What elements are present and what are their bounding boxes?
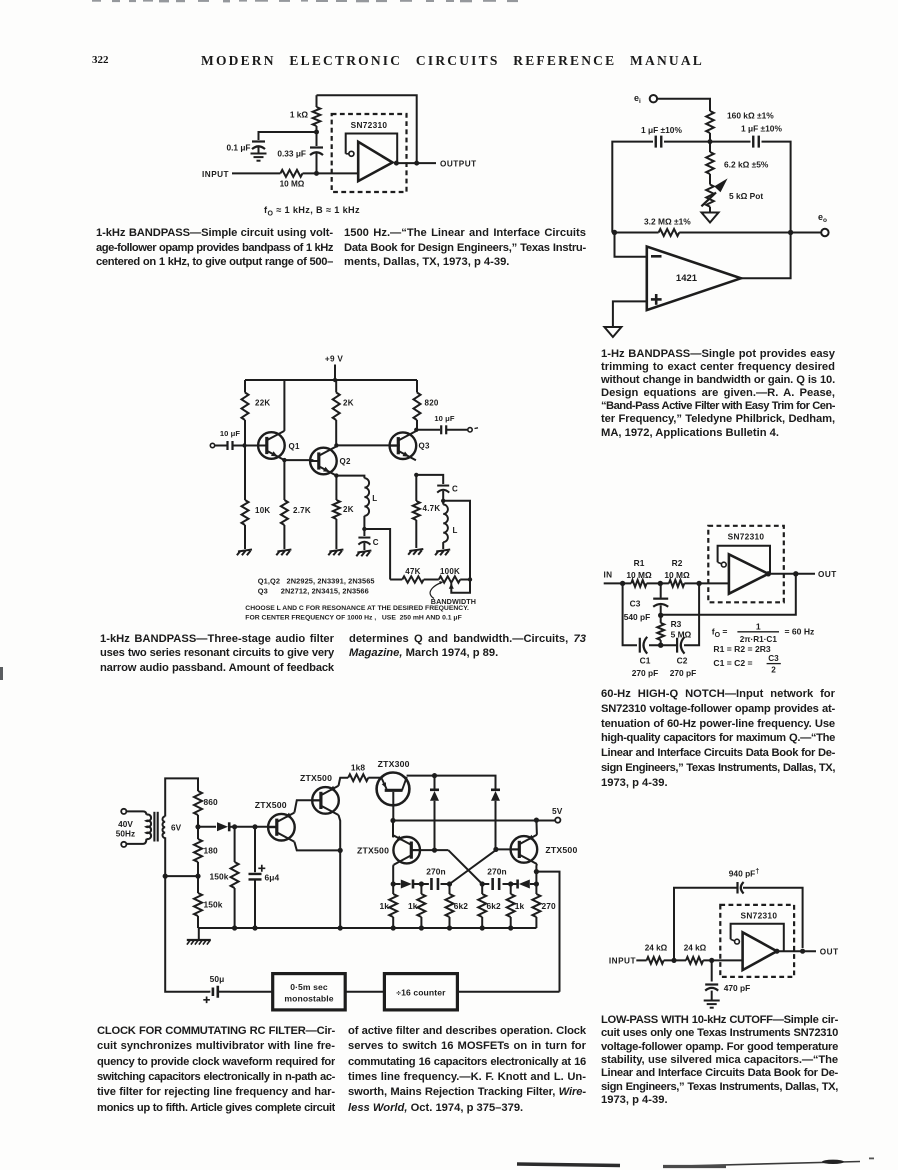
- svg-text:L: L: [372, 494, 377, 503]
- svg-text:OUT: OUT: [820, 947, 839, 956]
- ground (3-bar) below 0.1uF: [251, 153, 267, 155]
- wire: cross-coupling diagonal (right base to left cap): [450, 850, 496, 884]
- node: Q3 collector / output junction: [414, 428, 418, 432]
- resistor 22K: [242, 380, 271, 446]
- svg-text:2π·R1·C1: 2π·R1·C1: [740, 635, 778, 644]
- svg-text:270 pF: 270 pF: [632, 668, 659, 678]
- node: Q1 emitter junction: [282, 458, 286, 462]
- wire input line: [604, 582, 632, 584]
- node: 860/180/diode junction: [195, 824, 200, 829]
- svg-text:0.1 μF: 0.1 μF: [227, 143, 251, 153]
- node: 270 top junction: [534, 881, 539, 886]
- wire: voltage-follower feedback loop: [346, 134, 398, 164]
- node: L-C junction (Q2): [362, 527, 366, 531]
- wire to inverting input: [615, 233, 647, 257]
- svg-text:5V: 5V: [552, 806, 563, 816]
- node: output / feedback junction: [800, 949, 805, 954]
- wire pot to ground: [709, 207, 711, 213]
- wire Q1 collector to rail: [283, 380, 285, 431]
- svg-text:270n: 270n: [487, 867, 507, 877]
- capacitor 270n left: [421, 867, 449, 891]
- resistor 4.7K: [413, 475, 441, 548]
- svg-text:22K: 22K: [255, 399, 270, 408]
- resistor 820 (Q3 collector load): [414, 380, 439, 430]
- caption: 1-kHz bandpass (col 2): [344, 227, 586, 271]
- node: C1/C2/R3 junction: [658, 643, 663, 648]
- node: junction of 1k, 0.33uF, 0.1uF wire: [314, 130, 319, 135]
- svg-text:50Hz: 50Hz: [116, 830, 136, 839]
- resistor 1k (right): [507, 884, 525, 928]
- ground (3-bar) below 470 pF: [704, 1000, 720, 1002]
- svg-text:ZTX300: ZTX300: [378, 759, 410, 769]
- node: Q8 collector / counter junction: [534, 869, 539, 874]
- transformer T1 primary winding: [126, 811, 146, 814]
- svg-text:÷16 counter: ÷16 counter: [396, 987, 446, 997]
- potentiometer 5 kOhm: [701, 178, 763, 206]
- svg-text:270 pF: 270 pF: [670, 668, 697, 678]
- svg-text:10 MΩ: 10 MΩ: [664, 570, 690, 580]
- svg-text:1 μF ±10%: 1 μF ±10%: [741, 124, 782, 134]
- wire non-inverting input to ground: [613, 301, 647, 327]
- capacitor C1 270 pF: [632, 637, 659, 678]
- wire Q2 emitter right: [336, 476, 364, 479]
- resistor R1 10 MOhm: [626, 558, 652, 587]
- wire ZTX300 emitter vertical to mv emitter: [392, 821, 394, 838]
- node: 6u4 top junction: [252, 824, 257, 829]
- resistor 1k8: [348, 763, 368, 782]
- node: diode cathode / 150k junction: [232, 824, 237, 829]
- caption: low-pass with 10-kHz cutoff: [601, 1014, 838, 1108]
- diode D4 (bottom left, pointing right): [393, 883, 400, 885]
- resistor R3 5 MOhm: [657, 615, 691, 645]
- svg-text:CHOOSE L AND C FOR RESONANCE A: CHOOSE L AND C FOR RESONANCE AT THE DESI…: [245, 605, 469, 612]
- capacitor C2 270 pF: [670, 637, 697, 678]
- node: R2 / opamp input / C2 junction: [696, 581, 701, 586]
- svg-text:eo: eo: [818, 212, 827, 224]
- svg-text:2K: 2K: [343, 505, 354, 514]
- scan artifact: top edge dashes: [0, 0, 898, 8]
- transistor Q2: [310, 446, 351, 475]
- resistor 24 kOhm (first): [645, 944, 668, 964]
- node: IN / C1 junction: [620, 581, 625, 586]
- svg-text:ei: ei: [634, 93, 641, 105]
- wire: feedback top loop: [674, 888, 737, 961]
- svg-text:2.7K: 2.7K: [293, 506, 311, 515]
- resistor 150k filter: [209, 827, 238, 928]
- svg-text:150k: 150k: [209, 872, 228, 882]
- resistor 10 MOhm: [280, 170, 305, 189]
- diode D2 (left column): [434, 776, 436, 790]
- wire: junction to 180/150k node: [165, 875, 198, 877]
- diode D5 (bottom right, pointing left): [511, 883, 517, 885]
- svg-text:OUT: OUT: [818, 570, 837, 579]
- resistor 2K (Q2 collector load): [333, 380, 354, 445]
- svg-text:6μ4: 6μ4: [265, 873, 280, 883]
- minus sign: [651, 255, 662, 258]
- svg-text:ZTX500: ZTX500: [357, 845, 389, 855]
- svg-text:R2: R2: [672, 558, 683, 568]
- capacitor C (Q2 resonant): [358, 529, 378, 550]
- svg-text:fO =: fO =: [712, 627, 728, 640]
- op-amp triangle: [743, 932, 777, 970]
- wire 1k8 to ZTX300: [368, 777, 381, 779]
- svg-text:1k8: 1k8: [351, 763, 366, 773]
- node: 6k2 left top junction: [447, 881, 452, 886]
- svg-text:INPUT: INPUT: [609, 957, 636, 966]
- svg-text:180: 180: [204, 846, 219, 856]
- 5V output terminal: [555, 818, 560, 823]
- svg-text:C: C: [373, 538, 379, 547]
- transistor Q5 ZTX500 (second): [300, 773, 339, 815]
- node: output/feedback junction: [793, 571, 798, 576]
- resistor 6k2 (right): [478, 884, 501, 928]
- svg-text:C1 = C2 =: C1 = C2 =: [713, 658, 752, 668]
- inductor L (Q2 resonant): [364, 478, 377, 529]
- svg-text:40V: 40V: [118, 820, 133, 829]
- wire collector junction to counter riser: [536, 872, 559, 992]
- ground (triangle) below pot: [702, 213, 719, 223]
- op-amp U3 SN72310 dashed package box: [708, 526, 784, 603]
- node: op-amp output: [766, 571, 771, 576]
- transistor Q3: [389, 431, 430, 460]
- node: 100K / wiper / feedback junction: [468, 577, 472, 581]
- svg-text:1k: 1k: [515, 901, 525, 911]
- block: divide-by-16 counter: [384, 974, 457, 1010]
- wire collectors to bottom rail: [339, 815, 341, 928]
- svg-text:Q1: Q1: [289, 442, 300, 451]
- caption: clock for commutating RC filter (col 1): [97, 1025, 335, 1117]
- svg-text:47K: 47K: [405, 567, 420, 576]
- svg-text:940 pF†: 940 pF†: [729, 869, 760, 879]
- svg-text:ZTX500: ZTX500: [545, 845, 577, 855]
- wire Q1 emitter to Q2 base: [284, 459, 313, 461]
- capacitor 270n right: [482, 867, 511, 891]
- wire: notch feedback to C3/R3 node: [661, 574, 796, 615]
- svg-text:10 MΩ: 10 MΩ: [280, 180, 305, 189]
- diode D1 rectifier: [198, 826, 216, 828]
- svg-text:R1 = R2 = 2R3: R1 = R2 = 2R3: [713, 644, 771, 654]
- svg-text:SN72310: SN72310: [741, 911, 778, 921]
- wire Q7 base to cross-coupling: [411, 849, 448, 851]
- resistor 1k (second): [408, 884, 425, 928]
- resistor 3.2 MOhm 1%: [644, 217, 691, 237]
- wire: ZTX300 top rail to diodes: [407, 776, 496, 790]
- svg-text:FOR CENTER FREQUENCY OF 1000 H: FOR CENTER FREQUENCY OF 1000 Hz , USE 25…: [245, 615, 461, 622]
- node: left summing junction: [612, 230, 617, 235]
- svg-text:monostable: monostable: [284, 994, 333, 1004]
- capacitor 50u electrolytic: [203, 974, 230, 1003]
- node: resistor/capacitor junction: [708, 139, 713, 144]
- svg-text:C3: C3: [630, 599, 641, 609]
- svg-text:10 μF: 10 μF: [220, 429, 241, 438]
- svg-text:fO ≈ 1 kHz, B ≈ 1 kHz: fO ≈ 1 kHz, B ≈ 1 kHz: [264, 205, 360, 218]
- svg-text:4.7K: 4.7K: [423, 504, 441, 513]
- resistor 180: [194, 827, 218, 876]
- node: Q2 emitter junction: [334, 473, 338, 477]
- wire Q8 base: [496, 848, 519, 850]
- transistor Q6 ZTX300: [377, 759, 410, 821]
- wire: +9V rail: [245, 379, 417, 381]
- svg-text:C1: C1: [640, 656, 651, 666]
- node: Q4/Q5 collector junction: [338, 848, 343, 853]
- wire to 0.1uF capacitor: [259, 132, 317, 140]
- node: left rail junction: [163, 874, 168, 879]
- svg-text:100K: 100K: [440, 567, 460, 576]
- wire output: [777, 950, 816, 952]
- svg-text:OUTPUT: OUTPUT: [440, 159, 477, 168]
- caption: three-stage bandpass (col 1): [100, 633, 334, 676]
- svg-text:SN72310: SN72310: [351, 120, 388, 130]
- wire monostable to counter: [345, 991, 384, 993]
- wire left to 1uF cap: [664, 141, 710, 143]
- svg-text:6.2 kΩ ±5%: 6.2 kΩ ±5%: [724, 160, 769, 170]
- svg-text:R1: R1: [634, 558, 645, 568]
- bottom rail node dots: [391, 925, 396, 930]
- op-amp triangle: [358, 142, 392, 181]
- node: right output junction: [788, 230, 793, 235]
- wire Q5 emitter up to 1k8 line: [339, 778, 349, 786]
- wire Q7 emitter: [392, 836, 395, 838]
- input terminal: [210, 443, 214, 447]
- svg-text:24 kΩ: 24 kΩ: [645, 944, 668, 953]
- capacitor C3 540 pF: [624, 583, 668, 622]
- svg-text:270n: 270n: [426, 867, 446, 877]
- ground below 2K: [329, 550, 343, 552]
- capacitor 1 uF 10% (left): [641, 125, 682, 148]
- ground below L: [436, 550, 450, 552]
- op-amp U4 SN72310 dashed package box: [720, 905, 794, 977]
- resistor 1 kOhm: [290, 95, 320, 132]
- wire: summing line: [612, 232, 658, 234]
- input terminal 40V 50Hz top: [121, 809, 126, 814]
- resistor 24 kOhm (second): [684, 944, 707, 964]
- svg-text:3.2 MΩ ±1%: 3.2 MΩ ±1%: [644, 217, 691, 227]
- node: 180/150k junction: [195, 874, 200, 879]
- wire secondary bottom down left rail: [164, 837, 166, 876]
- resistor 10K: [242, 446, 271, 550]
- svg-text:Q3: Q3: [419, 442, 430, 451]
- capacitor 0.33 uF: [277, 132, 323, 173]
- svg-text:C: C: [452, 485, 458, 494]
- ground (triangle) at non-inverting input: [604, 327, 621, 337]
- potentiometer 100K bandwidth: [439, 567, 470, 593]
- wire: follower feedback loop: [718, 546, 770, 574]
- svg-text:1k: 1k: [408, 901, 418, 911]
- svg-text:160 kΩ ±1%: 160 kΩ ±1%: [727, 111, 774, 121]
- wire C-L junction to 100K wiper node: [443, 501, 470, 580]
- node: 5V rail left end: [390, 818, 395, 823]
- scan artifact: left edge mark: [0, 667, 3, 680]
- node: 470 pF junction: [709, 958, 714, 963]
- resistor 6.2 kOhm 5%: [706, 142, 769, 185]
- svg-text:0·5m sec: 0·5m sec: [290, 982, 328, 992]
- inverting input circle: [721, 562, 726, 567]
- wire 50u to monostable: [230, 991, 273, 993]
- node: Q2 collector junction: [334, 443, 338, 447]
- svg-text:R3: R3: [671, 619, 682, 629]
- label BANDWIDTH with pointer: [430, 581, 476, 606]
- caption: clock for commutating RC filter (col 2): [348, 1025, 586, 1117]
- node: Q7 base junction: [432, 848, 437, 853]
- node: right emitter on 5V rail: [534, 818, 539, 823]
- svg-text:6k2: 6k2: [454, 901, 469, 911]
- svg-text:470 pF: 470 pF: [724, 983, 751, 993]
- svg-text:2: 2: [771, 666, 776, 675]
- wire Q8 emitter up to 5V rail: [535, 820, 538, 835]
- ground below 2.7K: [277, 550, 291, 552]
- transistor Q1: [258, 431, 300, 460]
- transistor Q4 ZTX500 (first): [255, 800, 295, 842]
- node: 1k right top junction: [508, 881, 513, 886]
- wire Q8 collector down: [535, 864, 538, 884]
- wire input line: [636, 959, 646, 961]
- svg-text:150k: 150k: [204, 900, 223, 910]
- node: Q3 emitter junction: [414, 473, 418, 477]
- capacitor C (Q3 resonant): [437, 485, 458, 501]
- wire: input line: [232, 172, 280, 174]
- svg-text:1k: 1k: [379, 901, 389, 911]
- ground below C: [357, 551, 371, 553]
- transformer secondary winding 6V: [162, 816, 165, 838]
- svg-text:0.33 μF: 0.33 μF: [277, 149, 306, 159]
- svg-text:C3: C3: [768, 654, 779, 663]
- capacitor 10 uF output: [434, 414, 467, 434]
- svg-text:1 kΩ: 1 kΩ: [290, 110, 309, 120]
- wire: follower feedback loop: [731, 924, 784, 952]
- node: output/feedback junction: [414, 161, 419, 166]
- node: Q8 base junction: [493, 847, 498, 852]
- node: left diode column top: [432, 773, 437, 778]
- wire: top feedback rail from 1k resistor to output node: [317, 95, 417, 163]
- node: Q1 base / 22K / 10K junction: [242, 443, 246, 447]
- plus sign: [651, 298, 662, 301]
- transistor Q7 ZTX500 (multivibrator left): [357, 836, 421, 865]
- svg-text:270: 270: [542, 901, 557, 911]
- svg-text:INPUT: INPUT: [202, 170, 229, 179]
- ground (hatched) on bottom rail: [198, 928, 200, 940]
- wire Q3 emitter right: [416, 475, 443, 484]
- caption: 60-Hz high-Q notch: [601, 688, 835, 791]
- wire: bottom ground rail: [198, 927, 536, 929]
- svg-text:820: 820: [425, 399, 439, 408]
- svg-text:Q1,Q2 2N2925, 2N3391, 2N3565: Q1,Q2 2N2925, 2N3391, 2N3565: [258, 577, 375, 586]
- svg-text:24 kΩ: 24 kΩ: [684, 944, 707, 953]
- node: diode row left junction: [391, 881, 396, 886]
- capacitor 1 uF 10% (right): [741, 124, 782, 148]
- diode D3 (right column): [491, 791, 500, 801]
- caption: three-stage bandpass (col 2): [349, 633, 586, 662]
- inverting input circle: [346, 153, 349, 155]
- capacitor 10 uF input: [215, 429, 245, 450]
- node: C3/R3/feedback junction: [658, 613, 663, 618]
- svg-text:5 kΩ Pot: 5 kΩ Pot: [729, 191, 763, 201]
- resistor 6k2 (left): [446, 884, 469, 928]
- resistor 1k (first): [379, 884, 397, 928]
- wire feedback from L-C junction down to 47K: [364, 529, 390, 580]
- capacitor 940 pF feedback: [738, 882, 744, 894]
- transformer core: [153, 812, 155, 842]
- wire: cross-coupling diagonal (left base to right cap): [448, 850, 482, 884]
- wire Q7 collector down to diode row: [392, 865, 395, 884]
- wire: left rail to bottom monostable line: [165, 876, 209, 992]
- node: feedback / input junction: [671, 958, 676, 963]
- svg-text:IN: IN: [604, 571, 613, 580]
- svg-text:1 μF ±10%: 1 μF ±10%: [641, 125, 682, 135]
- op-amp triangle: [729, 554, 768, 593]
- caption: 1-kHz bandpass (col 1): [96, 227, 333, 271]
- svg-text:ZTX500: ZTX500: [300, 773, 332, 783]
- svg-text:SN72310: SN72310: [728, 532, 765, 542]
- svg-text:ZTX500: ZTX500: [255, 800, 287, 810]
- wire: 5V rail: [393, 820, 555, 822]
- svg-text:C2: C2: [677, 656, 688, 666]
- inductor L (Q3 resonant): [443, 501, 457, 549]
- node: op-amp output: [774, 949, 779, 954]
- svg-text:Q2: Q2: [340, 457, 351, 466]
- node: right cap left junction: [480, 881, 485, 886]
- svg-text:Q3 2N2712, 2N3415, 2N3566: Q3 2N2712, 2N3415, 2N3566: [258, 587, 369, 596]
- wire Q4 emitter to Q5 base: [294, 800, 321, 812]
- wire output: [768, 573, 815, 575]
- wire secondary top to 860: [165, 778, 198, 816]
- svg-text:6k2: 6k2: [487, 901, 502, 911]
- capacitor 470 pF: [705, 960, 750, 999]
- transistor Q8 ZTX500 (multivibrator right): [510, 835, 577, 864]
- svg-text:= 60 Hz: = 60 Hz: [785, 627, 815, 637]
- resistor 160 kOhm 1%: [706, 111, 774, 142]
- node: R1/R2/C3 junction: [658, 581, 663, 586]
- resistor 860: [194, 791, 218, 827]
- node: input / 0.33uF junction: [314, 171, 319, 176]
- scan artifact: bottom bars: [0, 1150, 898, 1170]
- svg-text:50μ: 50μ: [210, 974, 225, 984]
- resistor 47K feedback: [390, 567, 439, 583]
- resistor 2.7K: [281, 460, 311, 549]
- wire: output: [396, 162, 436, 164]
- inverting input circle: [735, 939, 740, 944]
- caption: 1-Hz bandpass: [601, 348, 835, 440]
- svg-text:2K: 2K: [343, 399, 354, 408]
- svg-text:6V: 6V: [171, 824, 182, 833]
- input terminal 40V 50Hz bottom: [121, 842, 126, 847]
- ground below 10K: [238, 550, 252, 552]
- svg-text:5 MΩ: 5 MΩ: [671, 630, 692, 640]
- op-amp U1 SN72310 dashed package box: [332, 114, 407, 192]
- wire from e_i to 160k: [657, 99, 710, 111]
- node: op-amp output: [394, 161, 399, 166]
- wire diode node to base: [235, 826, 277, 828]
- svg-text:L: L: [453, 526, 458, 535]
- resistor 270: [532, 884, 556, 928]
- ground below 4.7K: [409, 549, 423, 551]
- node: 1k second top: [419, 881, 424, 886]
- node: C-L junction (Q3): [441, 499, 445, 503]
- running head title: [201, 53, 704, 70]
- svg-text:+9 V: +9 V: [325, 355, 344, 364]
- wire op-amp output up to summing line: [741, 233, 791, 279]
- wire Q4 collector down and right: [294, 842, 340, 851]
- page number 322: [92, 54, 109, 66]
- svg-text:860: 860: [204, 797, 219, 807]
- svg-text:10 μF: 10 μF: [434, 414, 455, 423]
- resistor 2K (Q2 emitter): [333, 476, 354, 549]
- output terminal: [468, 428, 472, 432]
- wire right to 1uF cap: [710, 141, 751, 143]
- capacitor 6u4 electrolytic: [249, 827, 280, 928]
- op-amp U2 1421 triangle: [647, 247, 741, 311]
- wire counter to collector riser: [457, 991, 559, 993]
- svg-text:540 pF: 540 pF: [624, 612, 651, 622]
